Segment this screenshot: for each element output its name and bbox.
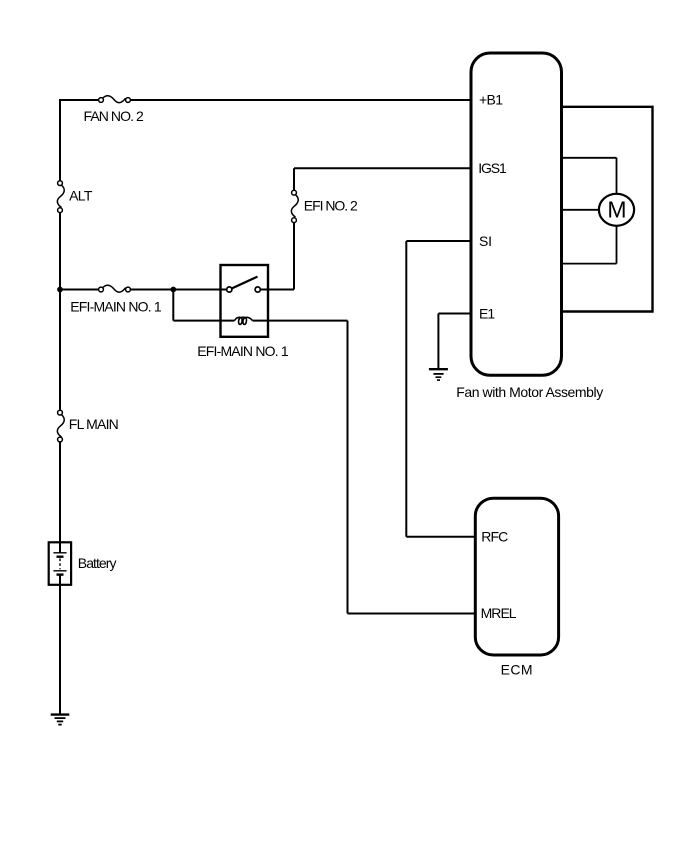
svg-text:FAN NO. 2: FAN NO. 2 (84, 108, 145, 124)
svg-text:E1: E1 (479, 305, 495, 321)
svg-text:Battery: Battery (78, 555, 117, 571)
svg-text:EFI-MAIN NO. 1: EFI-MAIN NO. 1 (70, 298, 162, 314)
svg-text:+B1: +B1 (479, 91, 503, 107)
svg-text:RFC: RFC (481, 529, 508, 545)
svg-text:M: M (607, 197, 626, 223)
svg-text:SI: SI (479, 233, 492, 249)
svg-text:IGS1: IGS1 (478, 160, 507, 176)
svg-text:ECM: ECM (501, 662, 533, 678)
svg-text:EFI-MAIN NO. 1: EFI-MAIN NO. 1 (197, 343, 289, 359)
svg-text:Fan with Motor Assembly: Fan with Motor Assembly (456, 384, 603, 400)
svg-text:FL MAIN: FL MAIN (69, 416, 119, 432)
svg-text:MREL: MREL (481, 605, 517, 621)
svg-text:ALT: ALT (69, 188, 93, 204)
svg-text:EFI NO. 2: EFI NO. 2 (304, 198, 358, 214)
